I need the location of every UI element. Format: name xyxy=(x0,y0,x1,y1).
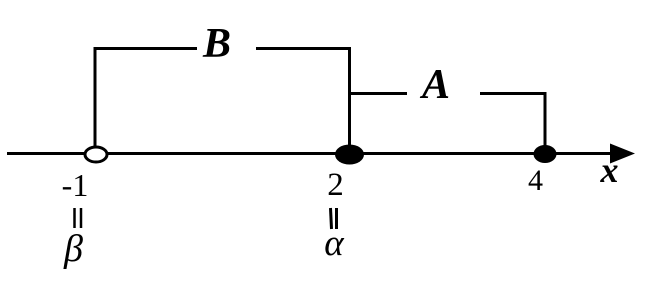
interval A top wire, left segment xyxy=(349,92,407,95)
axis arrowhead xyxy=(610,144,635,164)
open point at -1 (excluded endpoint) xyxy=(85,147,107,162)
rotated equals under 2 xyxy=(331,208,332,229)
interval B top wire, right segment xyxy=(256,47,351,50)
interval A right vertical wire at 4 xyxy=(544,92,547,146)
svg-text:β: β xyxy=(63,228,83,270)
svg-text:B: B xyxy=(202,21,231,67)
svg-text:α: α xyxy=(324,223,345,264)
filled point at 2 (node alpha) xyxy=(335,145,364,165)
svg-text:x: x xyxy=(600,150,619,190)
svg-text:A: A xyxy=(419,62,450,108)
filled point at 4 xyxy=(534,145,557,163)
svg-text:4: 4 xyxy=(528,164,543,197)
interval B left vertical wire at -1 xyxy=(94,47,97,148)
interval B right vertical wire at 2 xyxy=(348,47,351,146)
number line (x-axis) xyxy=(7,152,616,155)
interval B top wire, left segment xyxy=(94,47,198,50)
svg-text:-1: -1 xyxy=(62,167,89,203)
interval A top wire, right segment xyxy=(480,92,547,95)
svg-text:2: 2 xyxy=(327,167,344,203)
rotated equals under -1 xyxy=(73,208,76,228)
